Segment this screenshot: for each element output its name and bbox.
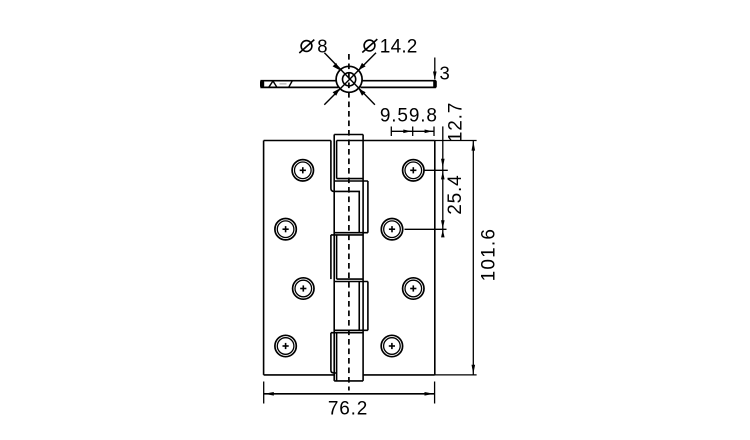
top view: hinge leaf edge (bar) top edge [260, 80, 436, 82]
left leaf contour at K1/K2 (jog) [331, 141, 359, 233]
screw hole r1 right [403, 160, 424, 181]
svg-text:76.2: 76.2 [328, 398, 368, 419]
top view: countersink slant lines [269, 81, 292, 87]
svg-text:9.5: 9.5 [380, 106, 409, 127]
svg-text:12.7: 12.7 [446, 102, 467, 142]
screw hole r1 left [292, 160, 313, 181]
label Ø14.2 [362, 37, 417, 58]
screw hole r3 left [293, 278, 314, 299]
svg-text:8: 8 [317, 36, 327, 57]
front view: leaf bottom edge [264, 374, 435, 376]
screw hole r2 left [275, 219, 296, 240]
front view: leaf top edge [264, 140, 435, 142]
dimension 12.7 / 25.4 vertical [405, 102, 477, 237]
front view: leaf left edge [263, 141, 265, 375]
dimension 3 (thickness) [433, 58, 450, 84]
knuckle barrel outer circle (Ø14.2) [336, 66, 362, 92]
svg-text:101.6: 101.6 [478, 228, 499, 282]
arrowheads on circle (4 inward) [333, 63, 366, 96]
svg-text:3: 3 [440, 63, 450, 84]
screw hole r2 right [381, 219, 402, 240]
svg-text:9.8: 9.8 [409, 106, 438, 127]
leader diagonal line 1 (Ø8 label to lower right) [324, 53, 375, 105]
top view: right end cap [433, 80, 437, 88]
svg-text:25.4: 25.4 [445, 175, 466, 215]
knuckle K2 (right leaf) [334, 181, 368, 233]
knuckle K5 (bottom, left leaf) [331, 333, 363, 381]
dimension 101.6 vertical [435, 141, 500, 375]
svg-text:14.2: 14.2 [380, 37, 418, 58]
leader diagonal line 2 (Ø14.2 label to lower left) [324, 53, 376, 105]
dimension 76.2 horizontal [264, 382, 435, 420]
dimension 9.5 / 9.8 [380, 106, 438, 137]
knuckle K3 (middle, left leaf) [331, 235, 363, 279]
top view: left end cap [260, 80, 264, 88]
pin inner circle (Ø8) [343, 73, 356, 86]
knuckle K1 (top, left leaf) [334, 135, 363, 179]
screw hole r4 left [275, 335, 296, 356]
screw hole r4 right [381, 335, 402, 356]
knuckle column continuous verticals [334, 135, 363, 381]
knuckle K4 (right leaf) [334, 282, 368, 331]
center line (vertical dashed axis) [348, 54, 350, 391]
top view: bar bottom edge [260, 86, 436, 88]
label Ø8 [299, 36, 327, 57]
screw hole r3 right [403, 278, 424, 299]
front view: leaf right edge [434, 141, 436, 375]
